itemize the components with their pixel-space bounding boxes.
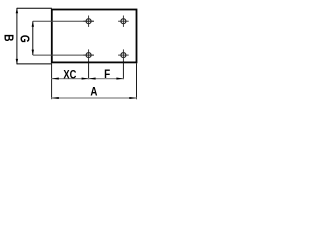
svg-text:A: A: [90, 86, 97, 99]
arrow G top: [32, 21, 34, 27]
arrow B bottom: [16, 59, 18, 65]
arrow XC right: [82, 78, 89, 80]
hole bottom-right: [118, 49, 129, 60]
wire: hole column 2 extension: [122, 60, 124, 79]
dimension F line: [89, 78, 124, 80]
wire: B top extension line: [17, 7, 52, 9]
wire: right vertical extension below plate: [136, 63, 138, 99]
arrow G bottom: [32, 50, 34, 56]
arrow A right: [129, 97, 136, 99]
svg-text:G: G: [17, 35, 30, 43]
hole top-left: [83, 16, 94, 27]
hole bottom-left: [83, 49, 94, 60]
hole top-right: [118, 16, 129, 27]
wire: left vertical extension below plate: [51, 63, 53, 99]
dimension A line: [52, 97, 137, 99]
arrow A left: [52, 97, 59, 99]
plate outline: [52, 10, 137, 63]
svg-text:B: B: [1, 34, 14, 41]
dimension G line: [32, 21, 34, 55]
arrow XC left: [52, 78, 59, 80]
arrow F left: [89, 78, 96, 80]
svg-text:F: F: [104, 68, 110, 81]
wire: hole column 1 extension: [88, 60, 90, 79]
wire: G bottom extension line: [33, 54, 94, 56]
svg-text:XC: XC: [63, 68, 76, 82]
dimension XC line: [52, 78, 89, 80]
arrow B top: [16, 8, 18, 14]
dimension B line: [16, 8, 18, 64]
wire: G top extension line: [33, 20, 94, 22]
arrow F right: [116, 78, 123, 80]
wire: B bottom extension line: [17, 63, 52, 65]
